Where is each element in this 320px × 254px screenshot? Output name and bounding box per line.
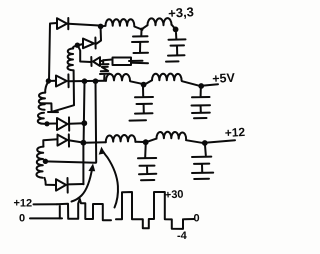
wire C3 node to L4 (146, 80, 153, 84)
transformer winding W1 (39, 93, 46, 110)
transformer winding W1b (38, 113, 44, 124)
wire D1 cathode to node (69, 24, 100, 26)
wire D3 anode to zener node (100, 60, 103, 64)
arrow A shaft (72, 167, 93, 202)
svg-text:0: 0 (194, 213, 200, 225)
wire top-left corner to D1 anode (49, 23, 57, 81)
wire L4 to +5V node (182, 81, 199, 86)
zener Z1 (100, 64, 110, 79)
diode D6 (58, 134, 70, 146)
wire L1 to C1 node (134, 27, 141, 30)
node +5V junction (198, 83, 204, 89)
node rail C vertical 1 (82, 78, 88, 84)
ground bar C1 (129, 60, 143, 62)
arrow B head (99, 147, 106, 155)
wire D2 anode to node (79, 44, 83, 45)
capacitor C3 (135, 87, 153, 114)
wire node to W0 top (73, 46, 76, 49)
node +12 junction (202, 140, 208, 146)
leader 0 level (30, 217, 62, 219)
arrow A head (88, 164, 95, 172)
transformer winding W2 (36, 147, 43, 178)
winding W2 top hook (43, 139, 57, 146)
winding W2 bottom hook (45, 178, 57, 185)
vertical wire rail D node to D7 (82, 143, 84, 184)
rail D wire to L5 (85, 141, 106, 144)
node C5 junction (143, 139, 149, 145)
svg-text:0: 0 (19, 213, 25, 225)
wire zener node to resistor (103, 59, 112, 62)
node +3.3 output (173, 27, 179, 33)
ground bar C3 (130, 119, 147, 121)
wire L2 to +3.3 node (172, 25, 175, 28)
wire node to D4 anode (48, 80, 56, 82)
wire W2 tap to bus x95 (46, 161, 96, 162)
diode D2 (83, 38, 96, 49)
ground bar C5 (141, 179, 154, 181)
inductor L4 (152, 74, 182, 81)
node junction rail A (98, 24, 104, 30)
rail C wire D4 to L3 (69, 80, 106, 83)
inductor L1 (105, 19, 134, 26)
capacitor C5 (138, 144, 156, 174)
svg-text:+30: +30 (165, 189, 184, 202)
ground bar C6 (194, 178, 209, 180)
inductor L6 (156, 132, 186, 139)
capacitor C2 (168, 33, 186, 56)
node C3 junction (141, 82, 147, 88)
svg-text:+12: +12 (224, 125, 245, 140)
node rail D junction (81, 140, 87, 146)
inductor L5 (106, 135, 136, 142)
diode D5 (57, 117, 69, 130)
vertical bus x84 rail C to rail D (83, 82, 86, 143)
svg-text:+12: +12 (14, 198, 33, 210)
wire W1b bottom to D5 anode (44, 123, 46, 125)
leader 0 right (184, 218, 194, 220)
diode D3 (reversed) (91, 57, 100, 66)
wire C5 node to L6 (148, 139, 157, 142)
arrow B shaft (103, 152, 118, 208)
winding W1 tap wire (41, 103, 59, 112)
svg-text:+3,3: +3,3 (168, 4, 195, 21)
wire D7 cathode to vertical (68, 183, 84, 185)
waveform right pulse train (116, 192, 183, 229)
node C1 junction (140, 28, 143, 31)
wire +12 node to end (207, 140, 236, 142)
winding W0 bottom vertical crossing rail C (52, 70, 74, 112)
wire node to inductor L1 (103, 25, 106, 27)
capacitor C1 (132, 30, 148, 53)
ground bar C2 (166, 60, 179, 62)
leader +12 level (34, 203, 58, 205)
wire rail A node down to D2 cathode (96, 28, 101, 44)
svg-text:+5V: +5V (212, 71, 236, 86)
node D5 anode (44, 121, 49, 126)
wire L5 to C5 node (135, 141, 143, 143)
wire L6 to +12 node (186, 140, 202, 143)
wire node to D3 cathode corner (78, 47, 91, 63)
wire C1 node to L2 (142, 25, 148, 29)
vertical bus x95 rail C to tap (95, 82, 98, 163)
transformer winding W0 (67, 49, 73, 71)
wire R1 to right (132, 62, 148, 64)
node D5 cathode on bus (81, 120, 87, 126)
node rail C vertical 2 (93, 78, 99, 84)
wire D6 cathode to rail D node (69, 140, 82, 142)
inductor L2 (148, 18, 172, 25)
node D2 anode / winding W0 top (75, 43, 80, 48)
diode D7 (56, 178, 68, 193)
capacitor C6 (192, 145, 213, 173)
inductor L3 (106, 74, 130, 81)
wire L3 to C3 node (130, 81, 142, 84)
resistor R1 (113, 58, 132, 66)
ground bar C4 (194, 117, 207, 119)
wire left vertical to winding W1 / D4 node (46, 78, 51, 83)
wire node down to winding W1 top (45, 82, 48, 93)
wire D5 cathode to bus (70, 122, 84, 125)
wire +5V node to end (203, 84, 218, 85)
waveform left square wave (57, 199, 111, 220)
node W2 tap (43, 159, 48, 164)
diode D4 (56, 74, 69, 87)
capacitor C4 (192, 88, 211, 113)
diode D1 (57, 18, 68, 29)
svg-text:-4: -4 (177, 230, 188, 242)
wire node to D5 (47, 123, 57, 125)
